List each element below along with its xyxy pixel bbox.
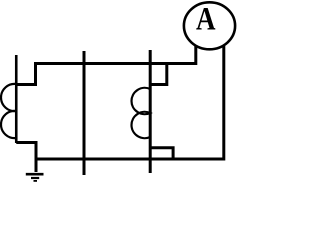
wire: winding L1 bottom to ground node [16, 143, 36, 173]
ground [26, 174, 44, 181]
inductor L1 winding arcs [1, 84, 16, 138]
wire: middle vertical conductor [83, 51, 86, 175]
inductor L1 lead (left vertical line) [15, 55, 18, 143]
inductor L2 lead (right vertical line) [149, 50, 152, 173]
svg-text:A: A [196, 0, 216, 37]
wire: ammeter right terminal down to bottom rail [222, 46, 225, 161]
wire: winding L2 top branch to top rail [150, 63, 167, 85]
wire: left riser from top rail down to winding top [15, 62, 36, 85]
inductor L2 winding arcs [132, 88, 151, 138]
wire: bottom rail [36, 158, 224, 161]
wire: winding L2 bottom branch to bottom rail [150, 148, 173, 159]
wire: ammeter left terminal to top rail [36, 45, 196, 64]
ammeter A1 [184, 0, 235, 49]
